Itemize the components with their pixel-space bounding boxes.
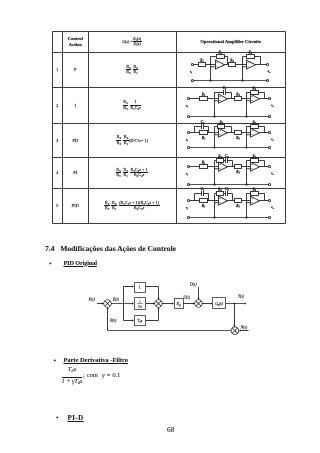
svg-text:R3: R3: [236, 170, 240, 175]
svg-text:D(s): D(s): [189, 283, 197, 287]
svg-text:ei: ei: [190, 70, 193, 75]
svg-text:R3: R3: [236, 136, 240, 141]
svg-text:ei: ei: [186, 172, 189, 177]
svg-text:eo: eo: [271, 137, 275, 142]
svg-text:Gp(s): Gp(s): [215, 302, 224, 307]
svg-text:Tis: Tis: [138, 304, 143, 309]
svg-text:eo: eo: [271, 205, 275, 210]
svg-text:ei: ei: [186, 138, 189, 143]
svg-text:eo: eo: [271, 103, 275, 108]
svg-text:R3: R3: [236, 204, 240, 209]
svg-text:B(s): B(s): [110, 319, 117, 323]
svg-text:C1: C1: [201, 120, 205, 125]
svg-text:N(s): N(s): [240, 326, 248, 330]
svg-text:eo: eo: [271, 171, 275, 176]
svg-text:C2: C2: [225, 154, 229, 159]
svg-text:Tds: Tds: [137, 319, 143, 324]
svg-text:C1: C1: [201, 187, 205, 192]
svg-text:Kp: Kp: [176, 301, 182, 307]
svg-text:eo: eo: [268, 69, 272, 74]
svg-text:R(s): R(s): [88, 298, 96, 302]
svg-text:ei: ei: [186, 104, 189, 109]
svg-text:ei: ei: [186, 206, 189, 211]
svg-text:R1: R1: [202, 204, 206, 209]
svg-text:C2: C2: [223, 86, 227, 91]
svg-text:E(s): E(s): [112, 298, 120, 302]
svg-text:R1: R1: [202, 136, 206, 141]
svg-text:1: 1: [139, 285, 141, 290]
svg-text:1: 1: [139, 299, 141, 303]
svg-text:C2: C2: [225, 187, 229, 192]
svg-text:Y(s): Y(s): [238, 295, 245, 299]
svg-text:U(s): U(s): [183, 296, 190, 300]
